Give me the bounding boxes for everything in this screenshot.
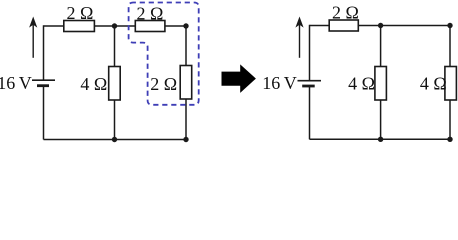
battery V1 short plate (-) bbox=[37, 84, 49, 87]
node F (right top corner junction) bbox=[447, 23, 452, 28]
wire: bottom wire left circuit bbox=[44, 139, 187, 141]
resistor R7 4ohm (right circuit right branch) bbox=[445, 67, 457, 101]
svg-text:2 Ω: 2 Ω bbox=[137, 4, 164, 24]
wire: right circuit left vertical upper bbox=[309, 25, 311, 81]
wire: left vertical lower (below battery) bbox=[43, 86, 45, 140]
wire: right circuit left vertical lower bbox=[309, 86, 311, 139]
current arrow (left circuit, up) bbox=[29, 17, 37, 58]
svg-text:16 V: 16 V bbox=[0, 73, 32, 93]
resistor R6 4ohm (right circuit middle branch) bbox=[375, 67, 387, 101]
battery V2 short plate (-) bbox=[302, 85, 315, 88]
wire: middle branch upper bbox=[114, 26, 116, 67]
svg-text:4 Ω: 4 Ω bbox=[80, 74, 107, 94]
wire: left vertical upper (above battery) bbox=[43, 25, 45, 80]
wire: right branch lower bbox=[185, 99, 187, 140]
block arrow (circuit reduction) bbox=[222, 64, 256, 93]
node E (right top middle junction) bbox=[378, 23, 383, 28]
svg-text:4 Ω: 4 Ω bbox=[348, 74, 375, 94]
node G (right bottom middle junction) bbox=[378, 137, 383, 142]
resistor R4 2ohm (left circuit right branch vertical) bbox=[180, 66, 192, 100]
node A (top middle junction) bbox=[112, 23, 117, 28]
wire: right circuit right branch lower bbox=[449, 100, 451, 139]
resistor R5 2ohm (right circuit top horizontal) bbox=[329, 20, 358, 31]
svg-text:4 Ω: 4 Ω bbox=[420, 74, 447, 94]
node H (right bottom corner junction) bbox=[447, 137, 452, 142]
resistor R1 2ohm (top-left horizontal) bbox=[64, 21, 95, 32]
wire: right circuit right branch upper bbox=[449, 26, 451, 67]
resistor R3 2ohm (dashed-box horizontal) bbox=[135, 21, 165, 32]
wire: middle branch lower bbox=[114, 100, 116, 140]
node D (bottom right junction) bbox=[183, 137, 188, 142]
battery V2 long plate (+) bbox=[298, 80, 322, 82]
wire: right circuit middle branch upper bbox=[380, 26, 382, 67]
battery V1 long plate (+) bbox=[32, 79, 55, 81]
wire: top wire left circuit bbox=[44, 25, 187, 27]
wire: right circuit middle branch lower bbox=[380, 100, 382, 139]
svg-text:2 Ω: 2 Ω bbox=[332, 3, 359, 23]
wire: bottom wire right circuit bbox=[310, 138, 451, 140]
svg-text:2 Ω: 2 Ω bbox=[67, 3, 94, 23]
resistor R2 4ohm (left circuit middle branch) bbox=[109, 67, 121, 101]
wire: right branch upper bbox=[185, 26, 187, 66]
current arrow (right circuit, up) bbox=[295, 17, 303, 58]
dashed highlight box (series 2ohm pair) bbox=[129, 3, 199, 105]
svg-text:2 Ω: 2 Ω bbox=[150, 74, 177, 94]
node C (bottom middle junction) bbox=[112, 137, 117, 142]
wire: top wire right circuit bbox=[310, 25, 451, 27]
svg-text:16 V: 16 V bbox=[262, 73, 297, 93]
node B (top right junction) bbox=[183, 23, 188, 28]
